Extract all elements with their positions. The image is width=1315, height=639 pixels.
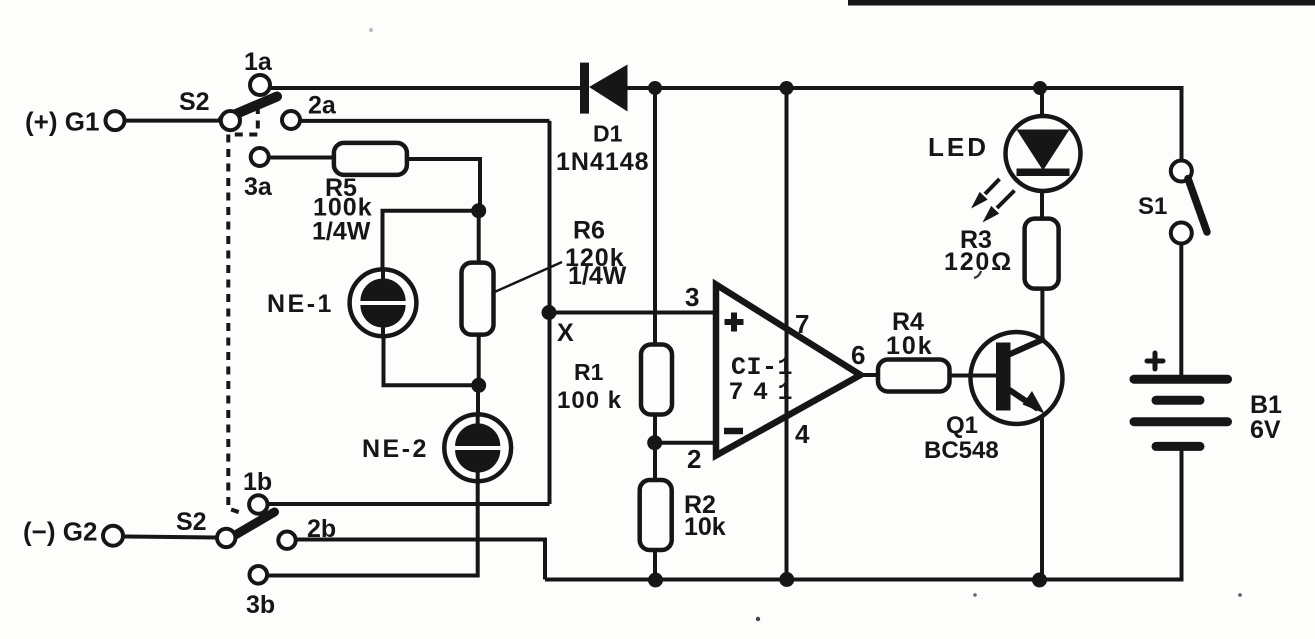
wire pin 3 (node X to op-amp) — [549, 311, 714, 315]
svg-text:1/4W: 1/4W — [312, 218, 371, 246]
LED — [1006, 116, 1081, 191]
svg-text:1N4148: 1N4148 — [556, 148, 650, 176]
svg-text:1/4W: 1/4W — [568, 262, 627, 290]
svg-text:7: 7 — [795, 309, 809, 339]
op-amp minus input marker — [724, 428, 743, 435]
svg-text:X: X — [557, 319, 574, 347]
label R6 120k 1/4W — [565, 217, 627, 291]
wire 1b to node X line — [268, 502, 550, 506]
svg-text:1b: 1b — [243, 468, 272, 496]
svg-text:B1: B1 — [1250, 391, 1282, 419]
wire NE-2 bottom to 3b — [268, 481, 478, 576]
svg-text:10k: 10k — [684, 513, 726, 541]
svg-text:(+) G1: (+) G1 — [25, 107, 99, 137]
terminal G2 — [23, 517, 123, 547]
svg-text:S1: S1 — [1138, 193, 1167, 220]
wire 2a to node X line — [300, 119, 550, 123]
wire NE-1 bottom to junction B — [384, 336, 479, 386]
svg-text:S2: S2 — [176, 508, 207, 536]
top V+ rail — [627, 88, 1182, 161]
resistor R6 — [462, 263, 494, 335]
contact 1b — [249, 495, 267, 513]
wire S1 to battery — [1179, 244, 1183, 376]
svg-text:10k: 10k — [886, 332, 934, 360]
label R3 120ohm — [944, 226, 1013, 278]
svg-text:S2: S2 — [179, 88, 210, 116]
wire junction A to NE-1 top — [383, 211, 479, 270]
svg-text:2a: 2a — [308, 92, 337, 120]
svg-text:LED: LED — [928, 132, 989, 162]
LED light arrows — [971, 179, 1015, 223]
junction top rail / LED branch — [1033, 81, 1047, 95]
wire R6 bottom to junction B — [477, 334, 481, 385]
neon lamp NE-1 — [350, 269, 417, 336]
op-amp plus input marker — [725, 313, 744, 332]
label R2 10k — [684, 491, 726, 541]
bottom 0V rail — [545, 450, 1182, 580]
transistor Q1 — [971, 332, 1063, 424]
svg-text:2: 2 — [687, 444, 701, 474]
label Q1 BC548 — [924, 412, 999, 464]
switch S1 — [1171, 161, 1207, 244]
switch S2 (section a) pole contact — [221, 111, 240, 130]
svg-text:R6: R6 — [573, 217, 605, 245]
wire 2b to ground rail — [296, 540, 545, 580]
leader line R6 — [493, 262, 562, 293]
junction top rail / R1 branch — [648, 81, 662, 95]
node X junction — [542, 305, 557, 320]
junction C (R1/R2/pin2) — [647, 435, 662, 450]
svg-text:Q1: Q1 — [946, 412, 978, 439]
contact 2a — [282, 111, 300, 129]
wire G1 to S2a pole — [125, 119, 221, 123]
contact 2b — [278, 532, 295, 549]
junction A (R5/R6/NE-1) — [471, 203, 486, 218]
neon lamp NE-2 — [444, 414, 511, 481]
junction emitter / bottom rail — [1032, 573, 1047, 588]
wire R4 to Q1 base — [950, 374, 997, 378]
junction top rail / pin7 branch — [780, 81, 794, 95]
wire R5 to junction A — [407, 159, 480, 205]
diode D1 — [580, 63, 628, 114]
svg-text:3a: 3a — [244, 173, 273, 201]
svg-text:(−) G2: (−) G2 — [23, 517, 97, 547]
wire top rail to LED — [1040, 88, 1044, 118]
svg-text:6V: 6V — [1250, 416, 1281, 444]
contact 1a — [250, 75, 270, 95]
svg-text:1a: 1a — [244, 48, 273, 76]
wire LED to R3 — [1040, 190, 1044, 219]
op-amp U1 triangle — [716, 285, 861, 456]
label B1 6V — [1250, 391, 1282, 444]
wire top rail to R1 — [653, 88, 657, 345]
svg-text:3: 3 — [685, 282, 699, 312]
junction pin4 / bottom rail — [779, 572, 794, 587]
switch S2 (section b) pole contact — [217, 529, 235, 547]
battery B1 — [1134, 353, 1228, 446]
svg-text:3b: 3b — [246, 591, 275, 619]
resistor R3 — [1025, 219, 1059, 289]
svg-text:6: 6 — [851, 340, 865, 370]
svg-text:NE-2: NE-2 — [362, 435, 429, 463]
svg-text:120Ω: 120Ω — [944, 248, 1013, 276]
wire junction A to R6 top — [477, 211, 481, 263]
label R4 10k — [886, 308, 934, 360]
wire 1a to D1 cathode — [270, 86, 582, 90]
mechanical linkage S2 (dashed) — [228, 106, 257, 513]
svg-text:D1: D1 — [593, 121, 623, 147]
wire Q1 emitter to bottom rail — [1040, 415, 1044, 580]
wire pin 6 to R4 — [860, 373, 879, 377]
resistor R2 — [640, 480, 672, 550]
svg-text:100 k: 100 k — [557, 387, 622, 414]
wire 3a to R5 — [269, 156, 335, 160]
contact 3b — [249, 566, 267, 584]
label R1 100k — [557, 359, 622, 414]
junction R2 / bottom rail — [648, 573, 663, 588]
resistor R5 — [334, 143, 407, 175]
wire junction B to NE-2 top — [476, 385, 480, 415]
wire G2 to S2b pole — [124, 537, 217, 538]
junction B (R6/NE-1/NE-2) — [471, 378, 486, 393]
resistor R4 — [878, 360, 950, 392]
wire junction C to pin 2 — [655, 441, 713, 445]
switch S2 (section b) arm — [229, 512, 275, 539]
wire junction C to R2 top — [653, 443, 657, 480]
supply line pins 7/4 — [785, 88, 789, 580]
wire R1 bottom to junction C — [653, 415, 657, 444]
svg-text:741: 741 — [729, 378, 803, 407]
switch S2 (section a) arm — [223, 97, 277, 120]
svg-text:4: 4 — [795, 419, 810, 449]
wire R2 to bottom rail — [653, 550, 657, 580]
node X vertical line (2a to 1b) — [548, 121, 552, 504]
contact 3a — [251, 148, 269, 166]
label R5 100k 1/4W — [312, 174, 373, 246]
svg-text:BC548: BC548 — [924, 437, 999, 464]
label CI-1 741 — [729, 353, 803, 407]
wire R3 to Q1 collector — [1040, 289, 1044, 340]
label D1 1N4148 — [556, 121, 650, 177]
resistor R1 — [641, 345, 672, 415]
terminal G1 — [25, 107, 125, 137]
svg-text:NE-1: NE-1 — [267, 290, 334, 318]
svg-text:R1: R1 — [574, 359, 604, 385]
